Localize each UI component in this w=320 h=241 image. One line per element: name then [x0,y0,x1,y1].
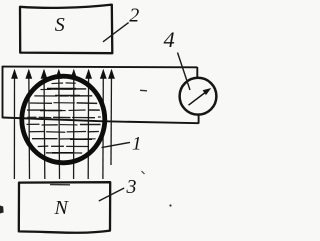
svg-text:1: 1 [132,133,142,154]
svg-text:2: 2 [129,4,139,26]
svg-text:S: S [55,14,65,36]
svg-text:N: N [54,197,70,219]
svg-text:4: 4 [164,27,175,52]
svg-text:3: 3 [126,176,137,198]
